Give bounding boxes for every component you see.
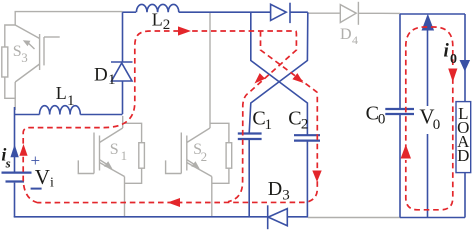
wire red path battery to top rail <box>23 31 295 203</box>
S1 arrow shaft <box>100 160 107 164</box>
svg-text:+: + <box>31 151 41 170</box>
svg-text:D: D <box>268 178 282 200</box>
S3 arrow <box>29 43 35 49</box>
transistor S1 igbt symbol <box>122 116 124 128</box>
wire red output loop <box>406 27 453 210</box>
crossover X wires <box>251 12 308 135</box>
switch S3 parallel box branch <box>5 25 15 47</box>
capacitor C1 <box>238 132 262 134</box>
transistor S2 igbt symbol <box>209 12 211 128</box>
node red arrow up in output loop <box>401 145 411 159</box>
svg-text:3: 3 <box>282 187 290 203</box>
svg-text:3: 3 <box>21 50 28 65</box>
svg-text:D: D <box>340 26 352 43</box>
node red arrow down in output loop <box>448 69 457 83</box>
svg-text:4: 4 <box>352 33 358 47</box>
svg-text:0: 0 <box>450 52 457 67</box>
wire top rail gray segment (left, S3 branch to D1 node) <box>15 12 122 25</box>
node i0 arrow head <box>460 60 471 72</box>
svg-text:C: C <box>288 107 301 129</box>
svg-text:1: 1 <box>108 72 116 88</box>
node red arrow down right of C2 <box>312 171 321 183</box>
svg-text:D: D <box>457 146 469 165</box>
transistor S3 igbt symbol <box>15 25 39 39</box>
wire red path left branch crossing to C2 and bottom rail <box>38 31 317 203</box>
node red arrow left on bottom path <box>168 198 181 207</box>
diode D1 vertical <box>122 12 124 62</box>
capacitor C2 <box>294 134 320 136</box>
V0 arrow line <box>427 30 429 107</box>
svg-text:0: 0 <box>433 117 441 133</box>
LOAD box <box>456 102 471 173</box>
diode D2 top blue <box>271 4 287 20</box>
node red arrow on left diagonal (down-right) <box>292 73 303 83</box>
node red arrow on right diagonal (down-left) <box>255 73 266 83</box>
node red arrow right on top path <box>178 26 191 35</box>
node V0 arrow head <box>422 14 435 31</box>
svg-text:L: L <box>56 83 67 103</box>
wire red path right corner crossing to C1 <box>228 31 296 202</box>
label minus <box>31 188 42 190</box>
svg-text:S: S <box>110 141 119 158</box>
wire gray bottom rail segment <box>308 217 400 219</box>
svg-text:0: 0 <box>378 111 386 127</box>
S2 parallel box branch <box>210 123 229 142</box>
diode D3 on bottom rail <box>267 205 269 229</box>
battery Vi plates <box>2 171 32 173</box>
wire gray top rail segment right with D4 <box>308 12 341 14</box>
wire bottom rail blue left <box>14 216 268 218</box>
svg-text:1: 1 <box>265 117 273 133</box>
diode D4 <box>340 5 356 23</box>
S1 parallel box branch <box>123 123 142 142</box>
wire left vertical from S3 to battery <box>14 107 16 172</box>
svg-text:i: i <box>444 41 450 62</box>
svg-text:L: L <box>152 9 163 29</box>
S1 arrow head <box>104 161 113 169</box>
S2 arrow shaft <box>187 160 194 164</box>
svg-text:1: 1 <box>67 93 75 109</box>
S3 arrow head <box>23 40 31 46</box>
capacitor C0 <box>385 108 414 110</box>
svg-text:2: 2 <box>301 117 309 133</box>
svg-text:i: i <box>50 176 54 191</box>
node is arrow blue <box>10 144 18 157</box>
wire top rail blue from D1 node through L2 to diode <box>123 11 137 13</box>
svg-text:1: 1 <box>121 148 128 163</box>
svg-text:s: s <box>5 155 11 170</box>
svg-text:2: 2 <box>163 17 171 33</box>
inductor L1 rail <box>15 114 40 116</box>
output rectangle <box>400 13 465 15</box>
inductor L2 <box>136 4 178 12</box>
svg-text:D: D <box>94 64 108 85</box>
S2 arrow head <box>191 161 200 169</box>
node red arrow up near battery <box>19 144 27 156</box>
svg-text:2: 2 <box>201 149 208 164</box>
